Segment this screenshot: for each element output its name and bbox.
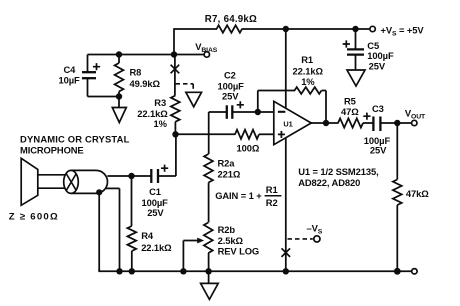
svg-text:+VS = +5V: +VS = +5V [381,25,425,38]
dashed stub to -VS [288,238,313,240]
resistor R3 [171,96,180,122]
terminal VOUT [412,120,417,125]
wire top rail left segment [174,28,217,30]
polarity + for C2 [237,101,244,108]
node junction R8 top [116,51,122,57]
resistor R2a [204,154,213,183]
break mark X on VBIAS line [171,65,180,74]
svg-text:R4: R4 [141,230,154,241]
svg-text:REV LOG: REV LOG [218,246,260,257]
svg-text:2.5kΩ: 2.5kΩ [218,235,244,246]
svg-text:R5: R5 [344,96,356,107]
svg-text:221Ω: 221Ω [218,169,241,180]
wire VBIAS to R3 [174,55,176,96]
svg-text:49.9kΩ: 49.9kΩ [130,78,161,89]
svg-text:GAIN = 1 +: GAIN = 1 + [215,190,262,201]
wire C2 to inverting input [232,111,273,113]
wire mic shield down [98,192,100,270]
break mark X on -V line [282,248,291,257]
wire C2 down to R2a [208,112,210,154]
capacitor C4 [82,71,96,73]
dashed stub to optional ground [176,83,194,85]
wire C4 top lead [87,55,89,73]
wire R4 top lead [131,176,133,226]
wire 100ohm to op-amp [259,133,274,135]
polarity + for C1 [161,165,168,172]
polarity + for C3 [363,113,370,120]
wire feedback right corner [322,90,327,92]
resistor R4 [127,226,136,251]
microphone element ellipse [64,170,79,193]
svg-text:47kΩ: 47kΩ [406,188,429,199]
wire 47k to rail [396,205,398,271]
ground under R8 [112,108,126,123]
svg-text:DYNAMIC OR CRYSTAL: DYNAMIC OR CRYSTAL [20,134,130,145]
svg-text:U1 = 1/2 SSM2135,: U1 = 1/2 SSM2135, [298,166,378,177]
wire R3 bottom lead [174,122,176,135]
resistor R5 [338,118,363,127]
resistor R8 [118,55,120,64]
potentiometer R2b [204,223,213,254]
capacitor C2 [226,105,228,119]
svg-text:U1: U1 [283,120,292,129]
svg-text:C1: C1 [149,186,161,197]
svg-text:25V: 25V [370,145,387,156]
terminal bottom right [412,269,417,274]
capacitor C5 [347,48,364,50]
wiper arrow of R2b [182,241,184,272]
ground under rail [201,283,219,299]
wire C3 to VOUT [380,122,411,124]
svg-text:25V: 25V [147,207,164,218]
svg-text:25V: 25V [369,61,386,72]
svg-text:22.1kΩ: 22.1kΩ [293,66,324,77]
svg-text:R2: R2 [266,197,278,208]
op-amp U1 [274,101,311,144]
node junction top rail / C5 [352,26,358,32]
wire C4 bottom lead [87,78,89,96]
node rail / -V [283,268,289,274]
wire C5 top lead [355,29,357,49]
wire VBIAS horizontal [88,54,205,56]
node VBIAS junction [171,51,177,57]
capacitor C3 [372,117,374,132]
node R8 bottom junction [116,93,122,99]
node output junction [323,120,329,126]
wire C2 left stub [209,111,227,113]
fraction bar [265,195,282,197]
node rail / R2b ground [205,268,211,274]
svg-text:AD822, AD820: AD822, AD820 [298,177,360,188]
node inverting input junction [255,109,261,115]
wire rail ground stem [208,271,210,283]
wire inverting node up [257,91,259,113]
optional ground near R3 [186,92,202,107]
svg-text:R2b: R2b [218,224,236,235]
svg-text:R3: R3 [154,97,166,108]
svg-text:VBIAS: VBIAS [195,41,218,54]
svg-text:–VS: –VS [307,223,323,236]
wire R2b to rail [208,253,210,271]
svg-text:R2a: R2a [218,158,236,169]
resistor R1 [295,87,322,94]
node mic shield junction [96,189,102,195]
svg-text:100Ω: 100Ω [237,143,260,154]
polarity + for C5 [343,40,350,47]
node VOUT junction [394,120,400,126]
microphone capsule body [71,170,107,193]
microphone horn [21,158,38,205]
svg-text:MICROPHONE: MICROPHONE [20,145,84,156]
wire mic return jog [106,187,120,189]
svg-text:100µF: 100µF [367,50,394,61]
terminal VBIAS [204,52,209,57]
wire R5 to C3 [363,122,373,124]
wire op-amp output [311,122,339,124]
svg-text:1%: 1% [154,118,168,129]
svg-text:10µF: 10µF [59,75,81,86]
wire top rail right segment [242,28,371,30]
svg-text:R1: R1 [301,54,313,65]
capacitor C1 [150,169,152,183]
wire feedback left [258,90,295,92]
svg-text:R7, 64.9kΩ: R7, 64.9kΩ [205,14,257,25]
svg-text:1%: 1% [301,76,315,87]
terminal -VS [314,236,320,242]
node rail / 47k [394,268,401,275]
wire C1 to input node [158,175,176,177]
svg-text:47Ω: 47Ω [341,106,359,117]
wire R4 bottom lead [131,251,133,271]
node R3 bottom junction [172,131,178,137]
terminal +VS [370,26,375,31]
svg-text:VOUT: VOUT [405,108,426,121]
polarity + for C4 [93,63,100,70]
wire R2a to R2b [208,183,210,223]
node rail / R4 [129,268,135,274]
wire R8 ground stem [118,97,120,108]
node mic signal / R4 junction [128,173,134,179]
node rail / mic return [116,268,122,274]
svg-text:R1: R1 [266,184,278,195]
microphone neck [38,174,65,176]
wire to 100ohm [176,133,236,135]
ground under C5 [347,70,365,86]
resistor 47k [393,180,402,206]
wire bottom rail [99,270,412,272]
wire VOUT down to 47k [396,123,398,180]
svg-text:Z ≥ 600Ω: Z ≥ 600Ω [9,212,59,223]
svg-text:C4: C4 [64,64,77,75]
wire -V supply from op-amp [285,138,287,272]
wire C5 bottom lead [355,55,357,70]
node junction top rail / supply riser [283,26,289,32]
wire +V supply to op-amp [285,29,287,108]
resistor 100ohm [235,130,259,139]
svg-text:C3: C3 [372,103,384,114]
node rail / wiper [180,268,186,274]
wire top rail down to VBIAS node [173,28,175,54]
resistor R7 [217,25,243,32]
svg-text:C2: C2 [224,70,236,81]
svg-text:22.1kΩ: 22.1kΩ [141,242,172,253]
wire mic signal to C1 [107,175,151,177]
svg-text:R8: R8 [130,67,142,78]
svg-text:25V: 25V [222,91,239,102]
